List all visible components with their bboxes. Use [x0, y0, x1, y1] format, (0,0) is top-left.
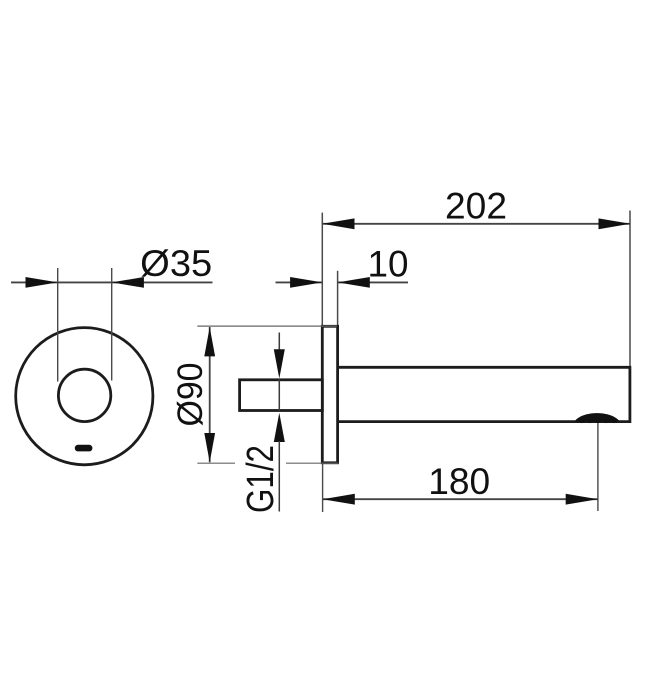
svg-text:Ø35: Ø35 [140, 243, 212, 284]
svg-text:Ø90: Ø90 [170, 363, 210, 427]
svg-text:180: 180 [428, 460, 490, 502]
svg-text:G1/2: G1/2 [240, 445, 282, 513]
svg-text:10: 10 [368, 242, 409, 284]
svg-text:202: 202 [445, 184, 507, 226]
